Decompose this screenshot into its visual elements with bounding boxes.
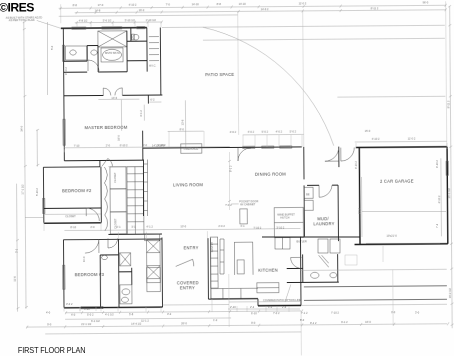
svg-text:96'-0: 96'-0: [423, 0, 429, 4]
svg-text:9'-1 2: 9'-1 2: [310, 321, 317, 325]
svg-text:6'-1 1/2: 6'-1 1/2: [91, 319, 100, 323]
svg-text:2'-6: 2'-6: [282, 305, 287, 309]
svg-text:HUTCH: HUTCH: [280, 216, 289, 220]
svg-text:5'-10 1/2: 5'-10 1/2: [125, 18, 136, 22]
svg-text:PATIO SPACE: PATIO SPACE: [205, 72, 234, 77]
bedroom2 right wall: [100, 167, 102, 223]
svg-text:14'-6: 14'-6: [111, 96, 117, 100]
svg-text:2'-0: 2'-0: [106, 143, 111, 147]
mud room bottom wall: [262, 236, 360, 238]
svg-text:6'-10 2: 6'-10 2: [120, 143, 128, 147]
living room right dim marks: [228, 152, 233, 210]
pocket door cabinet: [231, 199, 258, 224]
svg-text:2'-2: 2'-2: [250, 305, 255, 309]
dim row under master bedroom: [64, 142, 230, 147]
svg-text:3'-0 2: 3'-0 2: [66, 302, 73, 306]
svg-text:1'-2: 1'-2: [213, 318, 218, 322]
dimension line top second level: [59, 6, 446, 17]
svg-text:4'-1: 4'-1: [240, 224, 245, 228]
bath hall walls: [63, 46, 87, 62]
master bath skylight box: [98, 31, 127, 47]
nook bottom walls: [208, 298, 301, 306]
garage apron line: [337, 95, 445, 98]
living room top wall with fireplace: [143, 143, 302, 154]
shower wall: [97, 46, 99, 72]
left local dims bedroom2: [15, 188, 44, 253]
patio roof line: [203, 38, 445, 40]
svg-text:4'-10 2: 4'-10 2: [129, 3, 137, 7]
svg-text:5'-0: 5'-0: [50, 45, 54, 50]
svg-text:3'-0: 3'-0: [391, 310, 396, 314]
svg-text:3'-1: 3'-1: [131, 225, 136, 229]
svg-text:AS PER TOTAL PLAN: AS PER TOTAL PLAN: [9, 18, 35, 22]
svg-text:2'-10 1/2: 2'-10 1/2: [146, 18, 157, 22]
patio top edge line: [162, 25, 445, 27]
svg-text:11'-0 2: 11'-0 2: [408, 137, 416, 141]
svg-text:COVERED PATIO OPTION LINE: COVERED PATIO OPTION LINE: [263, 298, 301, 302]
patio extension line vertical 2: [303, 11, 304, 147]
svg-text:9'-1 2: 9'-1 2: [341, 320, 348, 324]
svg-text:7'-0 2: 7'-0 2: [225, 203, 232, 207]
interior dim texts middle: [180, 100, 284, 231]
kitchen dim stubs: [228, 305, 300, 312]
svg-text:21'-1 1/2: 21'-1 1/2: [81, 322, 92, 326]
patio extension line vertical 1: [237, 11, 240, 134]
master bath tub: [101, 48, 123, 62]
svg-text:19'-2 1/2: 19'-2 1/2: [448, 288, 452, 299]
skylight box top: [147, 268, 161, 283]
svg-text:3'-0: 3'-0: [415, 311, 420, 315]
svg-text:15'-0 2: 15'-0 2: [64, 67, 68, 75]
svg-text:14'10x16'8: 14'10x16'8: [152, 144, 165, 148]
svg-text:MSTR BATH: MSTR BATH: [105, 51, 120, 55]
svg-text:ENTRY: ENTRY: [180, 285, 195, 290]
svg-text:©IRES: ©IRES: [0, 1, 34, 15]
svg-text:5'-0 2: 5'-0 2: [262, 130, 269, 134]
bath right wall: [126, 31, 128, 72]
svg-text:3'-2: 3'-2: [167, 312, 172, 316]
room label covered entry: [177, 280, 199, 290]
svg-text:7'-0: 7'-0: [166, 2, 171, 6]
left inner dim line: [48, 22, 69, 95]
svg-text:8'-10: 8'-10: [70, 225, 76, 229]
bedroom2 bottom wall: [44, 222, 101, 224]
svg-text:14'-10: 14'-10: [239, 2, 247, 6]
front door: [176, 259, 194, 266]
garage bottom wall: [355, 243, 448, 246]
svg-text:CLOSET: CLOSET: [65, 214, 76, 218]
svg-text:FIREPLACE: FIREPLACE: [184, 147, 199, 151]
svg-text:11'-1 2: 11'-1 2: [141, 319, 149, 323]
patio space arc: [203, 26, 334, 147]
svg-text:15'-0: 15'-0: [365, 129, 371, 133]
kitchen side counter band: [220, 239, 224, 274]
kitchen island 2: [257, 283, 279, 293]
svg-text:FIRST FLOOR PLAN: FIRST FLOOR PLAN: [18, 346, 86, 355]
svg-text:4'-10 2: 4'-10 2: [435, 160, 439, 168]
garage right wall: [446, 147, 449, 244]
garage interior line: [362, 211, 446, 213]
svg-text:4'-0: 4'-0: [46, 311, 51, 315]
svg-text:14'-6 2: 14'-6 2: [261, 7, 269, 11]
svg-text:8'-0: 8'-0: [300, 318, 305, 322]
bottom right dim texts: [300, 311, 420, 326]
svg-text:2'-0: 2'-0: [90, 225, 95, 229]
left overall dimension line: [11, 21, 39, 311]
svg-text:LIVING ROOM: LIVING ROOM: [173, 182, 203, 187]
dimension line top overall: [59, 0, 447, 151]
svg-text:5'-10: 5'-10: [84, 307, 90, 311]
kitchen island: [234, 242, 253, 275]
svg-text:19'x21'-0: 19'x21'-0: [386, 234, 397, 238]
garage door band: [366, 242, 440, 244]
svg-text:8'-8: 8'-8: [217, 2, 222, 6]
bath2 walls: [119, 268, 132, 285]
svg-text:KITCHEN: KITCHEN: [258, 268, 278, 273]
dining right wall: [303, 147, 306, 236]
garage top wall: [356, 146, 447, 149]
svg-text:MASTER BEDROOM: MASTER BEDROOM: [85, 125, 128, 130]
master bath sink: [91, 50, 97, 55]
svg-text:34'-0: 34'-0: [20, 125, 24, 131]
entry right wall: [208, 238, 211, 299]
master bedroom interior dim: [98, 96, 139, 141]
svg-text:11'-0 2: 11'-0 2: [299, 1, 307, 5]
svg-text:8'-11 2: 8'-11 2: [371, 6, 379, 10]
svg-text:16'-0: 16'-0: [117, 135, 121, 141]
dimension row above master suite: [75, 18, 162, 23]
bottom overall dim: [26, 269, 448, 356]
svg-text:4'-1 2: 4'-1 2: [139, 110, 143, 117]
svg-text:11'-0: 11'-0: [82, 256, 86, 262]
svg-text:3'-1: 3'-1: [15, 248, 19, 253]
bedroom2 left wall: [42, 167, 45, 223]
svg-text:2'-0 2: 2'-0 2: [218, 224, 225, 228]
dim tick marks top: [60, 4, 447, 25]
master vanity: [66, 46, 88, 60]
svg-text:14'-10: 14'-10: [192, 2, 200, 6]
svg-text:5'-0 2: 5'-0 2: [87, 313, 94, 317]
svg-text:6'-2: 6'-2: [150, 98, 155, 102]
svg-text:W.I.C.: W.I.C.: [149, 64, 156, 68]
svg-text:4'-0: 4'-0: [71, 313, 76, 317]
svg-text:7'-10 2: 7'-10 2: [331, 311, 339, 315]
svg-text:11'-6: 11'-6: [13, 276, 17, 282]
svg-text:4'-1 2: 4'-1 2: [146, 225, 153, 229]
washer dryer: [318, 239, 340, 253]
svg-text:14'-4 1/2: 14'-4 1/2: [131, 322, 142, 326]
svg-text:LAUNDRY: LAUNDRY: [313, 221, 334, 226]
svg-text:2 CAR GARAGE: 2 CAR GARAGE: [380, 179, 414, 184]
svg-text:5'-6 1/2: 5'-6 1/2: [103, 18, 112, 22]
svg-text:W/ CABINET: W/ CABINET: [240, 202, 256, 206]
svg-text:BUTLER: BUTLER: [296, 239, 306, 243]
stair wall with tread stubs: [144, 160, 160, 241]
svg-text:4'-1: 4'-1: [268, 305, 273, 309]
patio door jamb: [338, 147, 340, 167]
walk lines: [301, 269, 447, 305]
entertainment wall boxes: [127, 167, 144, 235]
svg-text:BE: BE: [306, 192, 310, 196]
bath hall walls: [100, 239, 119, 307]
bedroom3 left wall: [62, 240, 65, 308]
bedroom3 top wall: [63, 238, 98, 240]
svg-text:4'-0 2: 4'-0 2: [276, 130, 283, 134]
hall toilet and door: [102, 238, 118, 259]
bath lower wall: [63, 45, 127, 72]
top wall master suite with windows: [61, 27, 147, 30]
svg-text:7'-2: 7'-2: [435, 223, 439, 228]
garage service door: [341, 147, 355, 161]
svg-text:8'-0: 8'-0: [180, 127, 185, 131]
powder room: [286, 236, 339, 305]
entry wall: [161, 238, 164, 307]
svg-text:4'-10 2: 4'-10 2: [437, 195, 441, 203]
linen closet: [120, 253, 131, 266]
svg-text:2'-10: 2'-10: [230, 305, 236, 309]
dim row above living room wall: [168, 125, 447, 143]
bath2 vanity: [120, 285, 132, 304]
svg-text:9'-0: 9'-0: [251, 321, 256, 325]
garage right rotated dims: [383, 160, 439, 262]
svg-text:4'-6 2: 4'-6 2: [230, 130, 237, 134]
kitchen pantry cabinets: [210, 237, 218, 288]
svg-text:21'-4: 21'-4: [357, 208, 361, 214]
garage left wall: [358, 147, 361, 244]
svg-text:4'-10 2: 4'-10 2: [354, 161, 358, 169]
svg-text:7'-1 2: 7'-1 2: [301, 311, 308, 315]
bedroom3 door: [85, 239, 99, 253]
hall dim row: [64, 223, 300, 230]
svg-text:17'-1 1/2: 17'-1 1/2: [21, 184, 25, 195]
wall between suite and patio: [159, 28, 162, 95]
garage interior dim: [357, 158, 442, 237]
svg-text:ENTRY: ENTRY: [184, 245, 199, 250]
door arc patio: [325, 147, 339, 161]
svg-text:14'-8: 14'-8: [95, 8, 101, 12]
bottom wall left: [64, 306, 163, 309]
svg-text:4'-1 1/2: 4'-1 1/2: [105, 312, 114, 316]
master bath toilet: [132, 34, 139, 40]
stairs skylight boxes: [146, 240, 160, 292]
dim rows bottom: [65, 310, 396, 323]
master bedroom bottom wall / hall: [64, 158, 143, 167]
svg-text:4'-0 2: 4'-0 2: [248, 130, 255, 134]
svg-text:CLOSET: CLOSET: [113, 172, 117, 183]
svg-text:7'-0 2: 7'-0 2: [273, 311, 280, 315]
covered entry floor edge: [162, 274, 229, 328]
as-built note with leader: [6, 15, 61, 28]
svg-text:16'-2: 16'-2: [139, 8, 145, 12]
hall dim verticals: [118, 231, 207, 240]
butler closet boxes: [275, 238, 290, 250]
mud laundry room: [296, 161, 359, 244]
svg-text:4'-8 1/2: 4'-8 1/2: [79, 19, 88, 23]
svg-text:2'-0: 2'-0: [143, 143, 148, 147]
svg-text:26'-0: 26'-0: [181, 321, 187, 325]
dim tick marks bottom: [26, 308, 449, 328]
svg-text:10'-0: 10'-0: [180, 224, 186, 228]
bedroom2 closet: [44, 208, 102, 218]
svg-text:13'-6: 13'-6: [181, 119, 185, 125]
bedroom2 door: [86, 208, 99, 221]
svg-text:8'-1 2: 8'-1 2: [229, 165, 233, 172]
master suite left wall: [62, 28, 65, 161]
svg-text:5'-0 2: 5'-0 2: [290, 129, 297, 133]
built-in shelves living room: [104, 167, 126, 234]
master bedroom top wall with double door: [64, 88, 163, 96]
dim extension stubs living wall: [64, 22, 447, 312]
hall walls: [99, 234, 162, 239]
svg-text:8'-11 2: 8'-11 2: [446, 100, 450, 108]
svg-text:16'-0: 16'-0: [365, 320, 371, 324]
svg-text:2'-1: 2'-1: [116, 225, 121, 229]
bottom-left extra dims: [44, 222, 101, 315]
linen wall: [127, 28, 147, 42]
master bedroom right wall with door: [139, 95, 162, 160]
laundry stoop: [345, 255, 357, 265]
right overall dimension line: [446, 6, 453, 328]
svg-text:7'-10: 7'-10: [74, 144, 80, 148]
svg-text:5'-8: 5'-8: [129, 312, 134, 316]
svg-text:17'-0: 17'-0: [98, 3, 104, 7]
covered patio option line: [229, 284, 302, 302]
dim tick marks right: [448, 5, 454, 326]
svg-text:6'-10: 6'-10: [251, 311, 257, 315]
svg-text:DINING ROOM: DINING ROOM: [255, 172, 286, 177]
svg-text:9'-0: 9'-0: [47, 322, 52, 326]
door stub living: [238, 148, 251, 161]
bath door arc: [88, 60, 99, 71]
svg-text:PANTRY: PANTRY: [210, 242, 214, 253]
bedroom2 top wall: [43, 166, 99, 168]
svg-text:BEDROOM #2: BEDROOM #2: [62, 188, 92, 193]
svg-text:8'-8: 8'-8: [73, 3, 78, 7]
svg-text:5'-10 2: 5'-10 2: [35, 188, 39, 196]
hutch buffet: [274, 207, 303, 237]
svg-text:4'-10 2: 4'-10 2: [372, 137, 380, 141]
dim tick marks left: [14, 21, 40, 309]
walk-in closet walls: [127, 28, 159, 72]
kitchen counter bottom band: [211, 288, 258, 298]
